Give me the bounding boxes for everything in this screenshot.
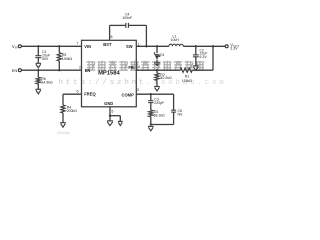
diode D1 lead top bbox=[156, 46, 158, 53]
svg-text:100kΩ: 100kΩ bbox=[62, 57, 73, 61]
wire COMP bottom rail bbox=[151, 124, 174, 126]
label R6 value bbox=[41, 77, 53, 84]
pin label SW bbox=[126, 44, 133, 49]
node C2 top bbox=[195, 45, 197, 47]
svg-text:3.3V: 3.3V bbox=[230, 47, 238, 51]
svg-text:4: 4 bbox=[138, 65, 140, 69]
capacitor C3 bbox=[148, 101, 153, 103]
diode D1 triangle bbox=[155, 55, 159, 60]
svg-text:68.1kΩ: 68.1kΩ bbox=[154, 113, 166, 117]
terminal VOUT label bbox=[230, 42, 239, 50]
pin number 7 (VIN) bbox=[76, 41, 78, 45]
resistor R5 lead bottom bbox=[58, 61, 60, 70]
svg-text:FREQ: FREQ bbox=[84, 92, 96, 97]
svg-text:10uH: 10uH bbox=[171, 38, 180, 42]
ground GND left bbox=[107, 116, 113, 126]
wire R1 to riser bbox=[192, 69, 213, 71]
pin number 3 (COMP) bbox=[137, 88, 139, 92]
label C2 value bbox=[200, 48, 208, 59]
wire C4 top right bbox=[129, 24, 147, 26]
node C1 top bbox=[37, 45, 39, 47]
resistor R6 lead top bbox=[37, 70, 39, 77]
resistor R6 lead bottom bbox=[37, 84, 39, 89]
wire C4 drop to SW bbox=[145, 25, 147, 46]
capacitor C6 bbox=[171, 110, 176, 112]
node C4/SW junction bbox=[145, 45, 147, 47]
pin number 1 (SW) bbox=[138, 42, 140, 46]
resistor R6 bbox=[36, 77, 40, 84]
resistor R2 lead bottom bbox=[156, 80, 158, 86]
label C6 value bbox=[178, 109, 184, 116]
svg-text:MP1584: MP1584 bbox=[98, 71, 120, 77]
capacitor C6 drop bbox=[173, 94, 175, 110]
svg-text:220pF: 220pF bbox=[154, 101, 164, 105]
diode D1 schottky cathode bbox=[154, 53, 161, 57]
capacitor C2 lead bottom bbox=[195, 57, 197, 66]
ground D1 bbox=[154, 63, 160, 66]
wire COMP rail bbox=[136, 93, 173, 95]
wire SW rail bbox=[136, 45, 169, 47]
label R5 value bbox=[62, 53, 73, 61]
label R3 value bbox=[154, 110, 166, 117]
watermark row 1 (light gray CJK company name) bbox=[87, 61, 205, 71]
svg-text:EN: EN bbox=[85, 68, 91, 73]
svg-text:GND: GND bbox=[104, 101, 113, 106]
label L1 value bbox=[171, 35, 180, 43]
wire GND stub bbox=[109, 107, 111, 116]
terminal EN circle bbox=[18, 69, 21, 72]
svg-text:50V: 50V bbox=[42, 57, 49, 61]
svg-text:7: 7 bbox=[76, 41, 78, 45]
svg-text:8: 8 bbox=[111, 35, 113, 39]
capacitor C2 lead top bbox=[195, 46, 197, 54]
label C4 value bbox=[122, 13, 132, 20]
terminal VIN label bbox=[12, 44, 18, 50]
resistor R5 bbox=[57, 53, 61, 61]
wire C4 top left bbox=[110, 24, 126, 26]
svg-text:http://szhnt.taobao.com: http://szhnt.taobao.com bbox=[59, 79, 227, 87]
resistor R4 lead top bbox=[62, 94, 64, 105]
wire R1 riser bbox=[212, 46, 214, 70]
svg-text:200kΩ: 200kΩ bbox=[67, 109, 78, 113]
resistor R1 bbox=[180, 68, 192, 72]
node R5 top bbox=[58, 45, 60, 47]
resistor R5 lead top bbox=[58, 46, 60, 52]
svg-text:SW: SW bbox=[126, 44, 133, 49]
svg-text:BST: BST bbox=[103, 42, 112, 47]
label C1 value bbox=[42, 50, 50, 61]
watermark row 2 (light gray URL http://szhnt.taobao.com) bbox=[59, 79, 227, 87]
wire L1 to output bbox=[183, 45, 225, 47]
label C3 value bbox=[154, 98, 164, 105]
pin number 5 (GND) bbox=[111, 109, 113, 113]
wire VIN rail bbox=[21, 45, 81, 47]
svg-text:6: 6 bbox=[77, 89, 79, 93]
node C3 top bbox=[150, 93, 152, 95]
svg-text:6.3V: 6.3V bbox=[200, 55, 208, 59]
ground GND right bbox=[118, 121, 123, 125]
op-amp U1 MP1584 regulator IC body bbox=[82, 40, 137, 107]
capacitor C2 bbox=[193, 55, 199, 57]
pin label FB bbox=[128, 65, 134, 70]
resistor R3 bbox=[149, 110, 153, 117]
terminal EN label bbox=[12, 68, 18, 73]
resistor R3 lead bottom bbox=[150, 117, 152, 125]
pin label GND bbox=[104, 101, 113, 106]
node COMP gnd bbox=[150, 123, 152, 125]
ground R2 bbox=[154, 87, 160, 92]
svg-text:EN: EN bbox=[12, 68, 18, 73]
pin label EN bbox=[85, 68, 91, 73]
resistor R4 bbox=[61, 105, 65, 113]
pin label FREQ bbox=[84, 92, 96, 97]
svg-text:D1: D1 bbox=[160, 53, 165, 57]
pin number 8 (BST) bbox=[111, 35, 113, 39]
pin number 6 (FREQ) bbox=[77, 89, 79, 93]
ground COMP network bbox=[148, 126, 154, 130]
node R2 top bbox=[156, 69, 158, 71]
capacitor C1 bbox=[35, 56, 41, 58]
node R5 bottom bbox=[58, 69, 60, 71]
capacitor C3 lead top bbox=[150, 94, 152, 100]
ground R6 bbox=[36, 89, 42, 94]
label R1 value bbox=[182, 75, 193, 83]
inductor L1 bbox=[169, 44, 183, 46]
capacitor C4 plates bbox=[126, 23, 129, 28]
label R2 value bbox=[160, 73, 172, 80]
ground R4 bbox=[60, 123, 66, 128]
watermark row 3 (faint mark bottom left) bbox=[57, 132, 70, 135]
wire FB rail bbox=[136, 69, 180, 71]
terminal VIN circle bbox=[18, 45, 21, 48]
pin number 2 (EN) bbox=[79, 65, 81, 69]
svg-text:5: 5 bbox=[111, 109, 113, 113]
pin label BST bbox=[103, 42, 112, 47]
svg-text:3: 3 bbox=[137, 88, 139, 92]
svg-text:IN: IN bbox=[15, 46, 18, 50]
svg-text:100nF: 100nF bbox=[122, 16, 132, 20]
svg-text:FB: FB bbox=[128, 65, 134, 70]
node GND branch bbox=[109, 115, 111, 117]
capacitor C1 lead top bbox=[37, 46, 39, 55]
pin number 4 (FB) bbox=[138, 65, 140, 69]
svg-text:2: 2 bbox=[79, 65, 81, 69]
terminal VOUT circle bbox=[225, 45, 228, 48]
svg-text:40.2kΩ: 40.2kΩ bbox=[160, 76, 172, 80]
ground C2 bbox=[193, 66, 199, 71]
capacitor C1 lead bottom bbox=[37, 58, 39, 63]
ground C1 bbox=[36, 63, 42, 68]
svg-text:VIN: VIN bbox=[84, 44, 91, 49]
label D1 bbox=[160, 53, 165, 57]
resistor R4 lead bottom bbox=[62, 113, 64, 123]
wire BST stub up bbox=[109, 25, 111, 40]
svg-text:COMP: COMP bbox=[122, 93, 135, 98]
wire EN rail bbox=[21, 69, 81, 71]
wire FREQ rail bbox=[63, 93, 82, 95]
node D1 top bbox=[156, 45, 158, 47]
diode D1 lead bottom bbox=[156, 60, 158, 63]
node R6 top bbox=[37, 69, 39, 71]
svg-text:NS: NS bbox=[178, 112, 184, 116]
capacitor C3 lead bottom bbox=[150, 103, 152, 110]
node R1 top bbox=[212, 45, 214, 47]
label R4 value bbox=[67, 105, 78, 113]
pin label VIN bbox=[84, 44, 91, 49]
wire GND branch right bbox=[110, 115, 120, 117]
capacitor C6 lead bottom bbox=[173, 112, 175, 124]
pin label COMP bbox=[122, 93, 135, 98]
svg-text:24.9kΩ: 24.9kΩ bbox=[41, 80, 53, 84]
resistor R2 bbox=[155, 73, 159, 80]
wire GND branch drop bbox=[119, 116, 121, 122]
IC name MP1584 bbox=[98, 71, 120, 77]
resistor R2 lead top bbox=[156, 70, 158, 73]
svg-text:124kΩ: 124kΩ bbox=[182, 79, 193, 83]
